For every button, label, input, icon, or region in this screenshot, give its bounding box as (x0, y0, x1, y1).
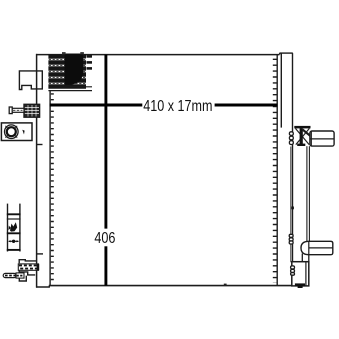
valve block thread hatch (28, 105, 36, 117)
valve stem mid dash (13, 109, 23, 111)
upper bracket center post (300, 128, 303, 145)
fitting foot (19, 272, 26, 281)
left tank outer edge (36, 54, 38, 288)
valve stem (12, 108, 25, 112)
o-ring inner ring (7, 127, 16, 136)
fitting lower flange (19, 270, 35, 275)
upper bracket diagonal braces (295, 128, 309, 144)
fitting side pipe (to left) (3, 273, 16, 277)
dimension line 410 right segment (215, 104, 278, 107)
valve cap head (9, 107, 12, 114)
upper bracket top bar (294, 126, 310, 128)
inlet block lower line 1 (70, 86, 92, 88)
tank weld tick lower (37, 253, 43, 255)
o-ring outer circle (5, 125, 19, 139)
lower pin inner vertical (308, 241, 310, 254)
inlet tube block stripes (top-left) (48, 56, 86, 86)
right fin ticks (273, 59, 277, 283)
desiccant divider 2 (7, 218, 21, 220)
upper bracket foot (297, 144, 305, 146)
core bottom edge (49, 285, 293, 287)
tank weld tick upper (37, 144, 43, 146)
fitting pipe thread dashes row 1 (19, 265, 39, 267)
inlet block lower line 2 (48, 90, 92, 92)
dimension line 406 lower segment (104, 246, 107, 285)
condenser core top edge (36, 54, 279, 56)
o-ring corner tick marks (5, 126, 17, 138)
bottom edge small tab (224, 284, 227, 286)
bottom-left pipe fitting top flange (19, 260, 36, 264)
inlet block right stubs (87, 56, 93, 68)
left fin ticks (51, 93, 54, 284)
lower pin mid line (309, 247, 333, 249)
drain plug bar (295, 283, 305, 286)
desiccant divider 1 (7, 213, 21, 215)
svg-text:406: 406 (94, 230, 115, 248)
fitting pipe thread dashes row 2 (20, 268, 39, 270)
desiccant box left wall (7, 204, 9, 252)
mounting bracket top-left (19, 71, 42, 90)
tube tick mark (291, 207, 294, 210)
side pipe joint block (16, 273, 24, 278)
canister inner wall (305, 262, 307, 286)
gasket comma mark (22, 130, 24, 135)
drier clamp upper (289, 132, 293, 145)
upper pin left edge (310, 131, 312, 146)
svg-text:410 x 17mm: 410 x 17mm (143, 98, 212, 116)
desiccant box bottom (7, 249, 21, 251)
support rod right line (308, 146, 310, 241)
dimension line 410 left segment (50, 104, 143, 107)
dimension line 406 upper segment (104, 55, 107, 229)
receiver drier top cap (279, 52, 292, 54)
side pipe hatch (5, 275, 16, 277)
left tank bottom step (48, 286, 50, 287)
down tube inner wall (290, 147, 292, 263)
valve block ribs (25, 108, 39, 114)
pipe stub above top edge right (80, 52, 84, 54)
desiccant box right wall (19, 204, 21, 252)
right header plate (fin ladder spine) (276, 55, 278, 286)
drier right wall (292, 53, 294, 262)
drier top step (279, 53, 281, 55)
side pipe joint hatch (17, 275, 24, 277)
lower pin legs (301, 254, 303, 262)
left header plate (fin ladder spine) (49, 91, 51, 286)
desiccant flow arrow symbol (9, 240, 19, 242)
drain plug nub (298, 286, 303, 288)
service valve block (24, 104, 40, 117)
drier left wall (280, 53, 282, 128)
support rod left line (306, 146, 308, 241)
left tank bottom edge (36, 286, 50, 288)
bottom canister block (292, 262, 309, 286)
upper bracket wedge brace (303, 130, 311, 137)
gasket box (1, 123, 32, 141)
lower mounting pin (301, 241, 333, 254)
upper mounting pin (310, 131, 334, 146)
fitting threaded pipe body (18, 264, 38, 270)
inlet block solid blob (65, 54, 84, 85)
desiccant divider 3 (7, 232, 21, 234)
inlet block speckle texture (49, 60, 86, 84)
canister clamp (291, 266, 295, 275)
desiccant starburst symbol (9, 222, 18, 231)
fitting pipe end cap (37, 264, 40, 270)
pipe stub above top edge left (62, 52, 66, 54)
upper pin mid line (310, 138, 333, 140)
drier clamp middle (289, 234, 293, 244)
